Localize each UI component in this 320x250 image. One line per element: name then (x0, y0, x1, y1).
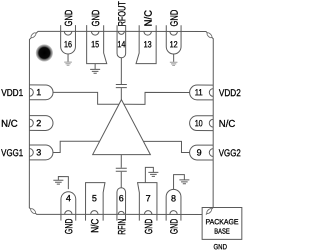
package base box (202, 207, 242, 239)
svg-text:N/C: N/C (143, 10, 155, 27)
package outline (29, 31, 213, 214)
svg-text:N/C: N/C (219, 119, 236, 130)
svg-text:PACKAGE: PACKAGE (206, 217, 239, 226)
svg-text:9: 9 (197, 147, 202, 157)
svg-text:6: 6 (119, 193, 124, 203)
pin 7 pad (138, 183, 157, 221)
svg-text:16: 16 (64, 39, 72, 49)
pin 5 pad (86, 183, 105, 221)
pin 1 indicator dot (36, 44, 54, 62)
pin 3 pad (29, 145, 53, 160)
svg-text:2: 2 (36, 118, 41, 128)
svg-text:13: 13 (144, 39, 152, 49)
wire capacitor to amp apex (120, 88, 122, 99)
svg-text:14: 14 (117, 39, 125, 49)
pin 10 pad (190, 116, 214, 131)
pin 16 pad (61, 25, 76, 54)
pin 2 pad (29, 116, 53, 131)
svg-text:GND: GND (143, 218, 155, 234)
svg-text:VDD1: VDD1 (1, 88, 23, 99)
svg-text:GND: GND (169, 218, 181, 234)
pin 14 pad (117, 25, 126, 58)
svg-text:11: 11 (195, 87, 203, 97)
svg-text:4: 4 (66, 193, 71, 203)
svg-text:GND: GND (63, 218, 75, 234)
pin 12 ground (170, 54, 178, 65)
svg-text:7: 7 (146, 193, 151, 203)
pin 11 pad (190, 85, 214, 100)
pin 6 pad (117, 188, 126, 221)
pin 12 pad (166, 25, 181, 54)
wire RFOUT to capacitor (120, 58, 122, 84)
svg-text:BASE: BASE (214, 227, 230, 236)
svg-text:VDD2: VDD2 (219, 88, 241, 99)
pin 13 pad (136, 25, 156, 63)
svg-text:VGG1: VGG1 (1, 148, 23, 159)
pin 4 ground (53, 177, 68, 190)
svg-text:10: 10 (195, 118, 203, 128)
wire capacitor to RFIN (120, 172, 122, 188)
pin 16 ground (64, 54, 72, 65)
wire VDD1 to amp (53, 92, 119, 104)
wire amp base to capacitor (120, 155, 122, 168)
op-amp triangle U1 (93, 100, 151, 155)
svg-text:GND: GND (169, 9, 181, 26)
pin 9 pad (190, 145, 214, 160)
pin 8 ground (174, 175, 190, 190)
wire VDD2 to amp (124, 92, 190, 104)
svg-text:N/C: N/C (1, 119, 18, 130)
svg-text:GND: GND (90, 9, 102, 26)
pin 15 pad (87, 25, 107, 63)
pin 1 pad (29, 85, 53, 100)
svg-text:3: 3 (36, 147, 41, 157)
svg-text:N/C: N/C (89, 218, 101, 232)
package base corner chamfer redraw (206, 207, 213, 214)
capacitor C2 input (116, 168, 127, 171)
corner index ellipse top-right (206, 32, 213, 39)
svg-text:RFOUT: RFOUT (116, 1, 128, 27)
svg-text:8: 8 (171, 193, 176, 203)
svg-text:GND: GND (213, 242, 227, 250)
svg-text:5: 5 (92, 193, 97, 203)
pin 15 ground (90, 64, 100, 74)
svg-text:12: 12 (170, 39, 178, 49)
pin 4 pad (61, 192, 76, 221)
svg-text:RFIN: RFIN (116, 219, 128, 235)
pin 7 ground (145, 167, 158, 182)
svg-text:VGG2: VGG2 (219, 148, 241, 159)
pin 8 pad (166, 189, 181, 220)
wire VGG1 to amp (53, 141, 100, 152)
svg-text:1: 1 (36, 87, 41, 97)
wire VGG2 to amp (143, 141, 189, 152)
svg-text:GND: GND (63, 9, 75, 26)
svg-text:15: 15 (91, 39, 99, 49)
corner index ellipse bottom-right (206, 208, 213, 215)
capacitor C1 output (116, 84, 127, 87)
corner index ellipse top-left (30, 32, 37, 39)
corner index ellipse bottom-left (30, 208, 37, 215)
